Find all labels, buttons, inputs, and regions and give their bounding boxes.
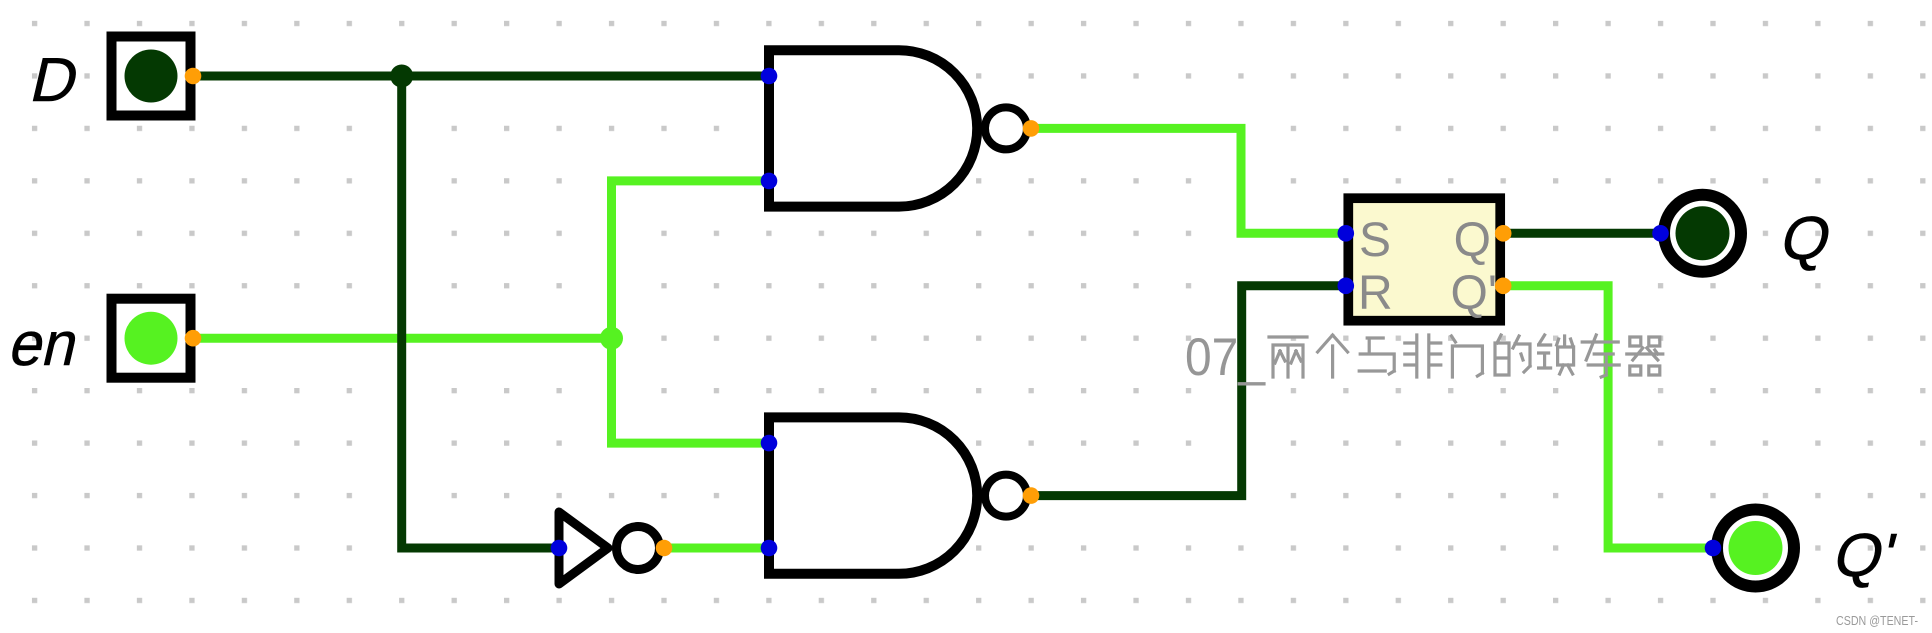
pin: latch R (blue): [1338, 278, 1355, 295]
pin: latch Q (orange): [1495, 225, 1512, 242]
wire: en input to junction (bright green, high): [192, 334, 612, 343]
char yu: [1359, 338, 1394, 374]
pin: U3 output (orange): [656, 540, 673, 557]
pin: U1 output (orange): [1023, 120, 1040, 137]
svg-text:Q': Q': [1451, 267, 1498, 320]
pin: latch S (blue): [1338, 225, 1355, 242]
pin: output Q' (blue): [1705, 540, 1722, 557]
wire: latch Q' output to output Q' (bright green): [1503, 286, 1713, 548]
wire: vertical from D junction down to inverter input (dark green): [402, 76, 559, 548]
watermark chinese glyphs: [1269, 335, 1663, 377]
svg-text:R: R: [1358, 267, 1393, 320]
pin: U1 input 2 (blue): [761, 173, 778, 190]
wire: D input to NAND1 top input (dark green, low): [192, 72, 769, 81]
svg-text:CSDN @TENET-: CSDN @TENET-: [1836, 613, 1918, 628]
pin: U2 output (orange): [1023, 487, 1040, 504]
output Q' (LED ring): [1717, 510, 1794, 587]
node junction on en wire: [600, 327, 623, 350]
char liang: [1269, 337, 1307, 377]
node junction on D wire: [390, 65, 413, 88]
char qi: [1627, 337, 1663, 375]
pin: en output pin (orange): [185, 330, 202, 347]
pin: U1 input 1 (blue): [761, 68, 778, 85]
svg-text:S: S: [1359, 214, 1391, 267]
pin: U2 input 2 (blue): [761, 540, 778, 557]
pin: D output pin (orange): [185, 68, 202, 85]
wire: en junction up to NAND1 bottom input: [612, 181, 770, 338]
wire: NAND1 output to latch S input (bright green): [1031, 128, 1346, 233]
char de: [1495, 335, 1530, 375]
inverter U3: [559, 512, 660, 584]
char suo: [1539, 335, 1574, 374]
svg-text:Q: Q: [1454, 214, 1491, 267]
input D (button): [112, 37, 191, 116]
NAND gate U1 (top): [769, 50, 1027, 206]
wire: latch Q output to output Q (dark green): [1503, 229, 1660, 238]
pin: output Q (blue): [1652, 225, 1669, 242]
output Q (LED ring): [1664, 195, 1741, 272]
pin: latch Q' (orange): [1495, 278, 1512, 295]
NAND gate U2 (bottom): [769, 417, 1027, 573]
wire: en junction down to NAND2 top input: [612, 338, 770, 443]
svg-text:07_: 07_: [1185, 328, 1266, 387]
pin: U3 input (blue): [551, 540, 568, 557]
char fei: [1405, 335, 1441, 377]
char ge: [1318, 335, 1348, 377]
char cun: [1582, 335, 1619, 377]
input en (button): [112, 299, 191, 378]
wire: NAND2 output to latch R input (dark green): [1031, 286, 1346, 496]
char men: [1451, 336, 1482, 377]
wire: inverter output to NAND2 bottom input (bright green): [664, 544, 769, 553]
pin: U2 input 1 (blue): [761, 435, 778, 452]
SR latch U4: [1348, 198, 1500, 321]
